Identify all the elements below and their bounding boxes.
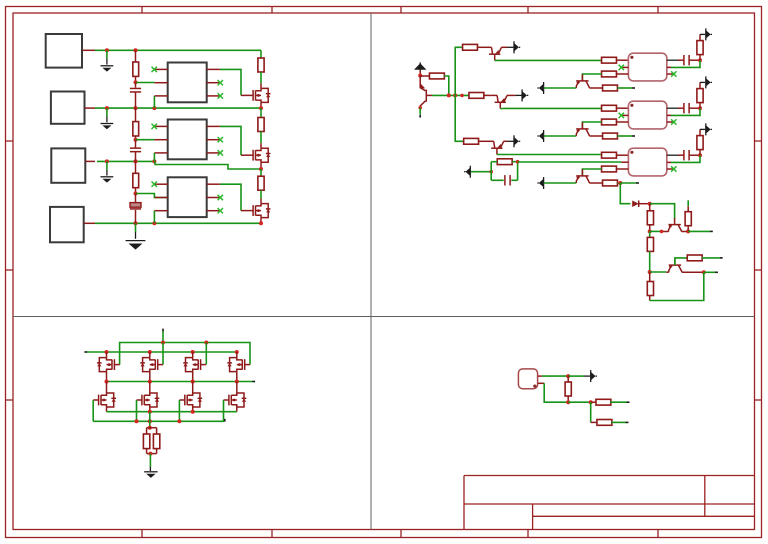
U2 pin5 stub + X <box>207 139 220 141</box>
wire net to drain resistor R1D <box>260 50 262 58</box>
wire drain drop M7 <box>192 382 194 394</box>
junction drain rail / M2 <box>148 350 152 354</box>
Q1 gate stub <box>241 94 253 96</box>
frame top tick 3 <box>400 7 402 14</box>
wire node across <box>568 401 591 403</box>
Y1 polarity dot <box>533 385 536 388</box>
U3 pin3 stub (left bottom) <box>154 210 167 212</box>
relay K1 coil resistor Ra1 <box>602 57 617 63</box>
wire R3-C3 node to U3 pin2 <box>136 194 168 198</box>
M8 gate stub <box>224 399 229 401</box>
junction net IN4 / U3 pin3 wire <box>152 221 156 225</box>
wire M6 source drop <box>149 407 151 412</box>
wire J2 output stub <box>85 107 96 109</box>
junction shunt top node <box>148 426 152 430</box>
input arrow P5 <box>543 177 545 189</box>
resistor Rc3 <box>603 180 618 186</box>
M4 gate stub <box>245 364 250 366</box>
U3 pin2 stub (left mid) <box>154 197 167 199</box>
junction mid rail / column 3 <box>191 380 195 384</box>
junction drain rail / M3 <box>191 350 195 354</box>
wire arrow to Q23 emitter <box>544 182 577 184</box>
junction net IN2 / GND2 <box>105 106 109 110</box>
wire net IN1 <box>95 49 261 51</box>
wire Y1 pin1 to supply node <box>542 375 568 377</box>
wire M7 source drop <box>192 407 194 412</box>
wire Rc1 stub <box>617 87 632 89</box>
resistor R40 shunt A <box>146 428 148 434</box>
resistor R41 shunt B <box>156 428 158 434</box>
capacitor Cs1 snubber <box>683 55 685 65</box>
frame bottom tick 2 <box>271 530 273 538</box>
wire M8 source drop <box>236 407 238 412</box>
frame right tick 1 <box>755 140 762 142</box>
wire drain drop M5 <box>106 382 108 394</box>
wire drain drop M1 <box>106 352 108 358</box>
M7 gate stub <box>179 399 184 401</box>
RC parallel block: resistor R14 <box>490 162 492 181</box>
U1 pin3 stub (left bottom) <box>154 95 167 97</box>
Q1 source wire <box>260 102 262 108</box>
junction supply node <box>566 374 570 378</box>
ground GND2 <box>101 123 114 125</box>
junction net IN3 / U2 pin3 wire <box>152 159 156 163</box>
Q2 source wire <box>260 162 262 169</box>
relay K1 drive resistor Rb1 <box>602 71 617 77</box>
junction Q3 source node <box>259 221 263 225</box>
wire RC node to relay K3 pin2 <box>518 161 622 163</box>
supply arrow row 1 <box>700 33 705 35</box>
diode D1 <box>632 201 639 208</box>
U1 pin1 no-connect X <box>152 67 157 72</box>
wire gate rail top row <box>120 343 250 365</box>
resistor R33 <box>687 255 702 261</box>
junction net IN1 / ladder <box>134 48 138 52</box>
wire M2 gate drop <box>162 343 164 365</box>
resistor R11 (NPN1 base) <box>463 44 478 50</box>
capacitor C3 polarized <box>130 203 141 208</box>
wire R34 loop to Q31 collector <box>650 272 704 300</box>
ground GND1 <box>101 65 114 67</box>
frame top tick 1 <box>141 7 143 14</box>
junction snubber node 2 <box>698 106 702 110</box>
wire Q30 collector to node <box>682 231 689 233</box>
frame top tick 2 <box>271 7 273 14</box>
relay K3 contact wire (black) <box>667 154 678 156</box>
junction emitter stub <box>660 230 664 234</box>
Y1 pin2 stub <box>538 382 544 384</box>
resistor R50 <box>567 376 569 382</box>
wire Rb1 to Q21 base <box>582 74 601 81</box>
wire Rb2 to Q22 base <box>582 122 601 129</box>
junction base net / R10 branch <box>447 93 451 97</box>
wire R10 to base net <box>444 76 449 95</box>
junction net IN4 / ladder-ground <box>134 221 138 225</box>
U2 pin4 stub + X <box>207 152 220 154</box>
relay K2 pin2 stub + X <box>622 114 629 116</box>
U1 pin5 stub + X <box>207 82 220 84</box>
wire Rc3 stub <box>620 182 636 184</box>
resistor R52 <box>591 421 598 423</box>
relay K2 drive resistor Rb2 <box>602 119 617 125</box>
mosfet M6 (bottom row) <box>141 395 143 406</box>
wire Q31 collector to node <box>682 271 704 273</box>
wire node down to R32 <box>649 231 651 237</box>
wire Rs1 to supply arrow <box>699 34 701 40</box>
U3 pin6 wire to MOSFET gate <box>220 184 241 210</box>
mosfet Q1 <box>252 90 254 101</box>
wire J3 output stub <box>85 160 95 162</box>
relay K1 contact wire (black) <box>667 59 678 61</box>
wire Y1 pin2 down <box>544 383 568 402</box>
wire R1D to Q1 drain <box>260 72 262 83</box>
mosfet M1 (top row) <box>113 359 115 370</box>
wire end tick R52 <box>626 422 629 424</box>
wire Q10 collector stub <box>419 108 421 115</box>
wire net IN2 <box>95 107 261 109</box>
junction gate rail / M2 gate <box>161 341 165 345</box>
junction base net / R11 stub <box>460 94 464 98</box>
wire node to supply arrow <box>568 375 584 377</box>
frame bottom tick 3 <box>400 530 402 538</box>
wire D1 node to Q30 base <box>650 204 675 219</box>
junction net IN2 / ladder <box>134 106 138 110</box>
mosfet M3 (top row) <box>200 359 202 370</box>
ground GND2 stem <box>106 108 108 116</box>
wire Rb3 to Q23 base <box>582 169 601 176</box>
U1 pin4 stub + X <box>207 95 220 97</box>
relay K3 pin2 stub <box>621 161 628 163</box>
wire J4 output stub <box>84 222 95 224</box>
U1 pin3 wire down to input net <box>153 96 155 108</box>
relay K3 drive resistor Rb3 <box>602 166 617 172</box>
frame top tick 5 <box>657 7 659 14</box>
wire node to C2 <box>135 140 137 149</box>
resistor R31 <box>687 206 689 211</box>
wire Rc2 stub <box>617 135 632 137</box>
wire end tick R33 <box>720 257 723 259</box>
wire Q31 collector out <box>704 271 716 273</box>
junction mid rail / column 4 <box>235 380 239 384</box>
junction RC left node <box>489 170 493 174</box>
wire R33 out <box>702 257 721 259</box>
wire M8 gate drop <box>223 400 225 421</box>
transistor Q22 (PNP driver) <box>576 128 588 130</box>
wire end tick R51 <box>627 401 630 403</box>
wire Q21 collector to Rc1 <box>589 87 602 89</box>
junction net IN3 / ladder <box>134 159 138 163</box>
U2 pin6 wire to MOSFET gate <box>220 126 241 155</box>
wire drain drop M8 <box>236 382 238 394</box>
junction net IN1 / GND1 <box>105 48 109 52</box>
U2 pin1 stub (left top, unconnected) <box>154 125 167 127</box>
resistor Rc1 <box>603 85 618 91</box>
wire Rs2 to supply arrow <box>699 82 701 88</box>
transistor Q21 (PNP driver) <box>576 80 588 82</box>
junction D1 cathode node <box>648 202 652 206</box>
wire base net B1 <box>432 94 469 96</box>
wire M6 gate drop <box>136 400 138 421</box>
supply arrow row 3 <box>700 128 705 130</box>
supply arrow P10 <box>590 370 592 382</box>
wire Rs3 to supply arrow <box>699 129 701 135</box>
resistor R13 (NPN3 base) <box>464 138 479 144</box>
Y1 pin1 stub <box>538 375 542 377</box>
capacitor C2 <box>130 147 141 149</box>
wire node to C3 <box>135 194 137 203</box>
wire M2 source to mid rail <box>149 372 151 382</box>
wire +V to node A <box>419 71 421 76</box>
frame bottom tick 1 <box>141 530 143 538</box>
mosfet M5 (bottom row) <box>98 395 100 406</box>
optocoupler U1 body <box>168 63 207 103</box>
frame bottom tick 4 <box>527 530 529 538</box>
wire end tick row 3 <box>636 182 639 184</box>
wire shunt join bottom <box>147 453 157 455</box>
M3 gate stub <box>201 364 206 366</box>
M6 gate stub <box>137 399 142 401</box>
wire R1-C1 node to U1 pin2 <box>136 82 155 84</box>
junction Q30 emitter node <box>648 229 652 233</box>
M2 gate stub <box>158 364 163 366</box>
wire source rail down to shunt <box>149 412 151 428</box>
relay K3 body <box>628 148 666 176</box>
wire net to drain resistor R3D <box>260 169 262 176</box>
ground GND4 stem <box>135 223 137 232</box>
wire net to drain resistor R2D <box>260 108 262 117</box>
resistor Rs1 supply <box>699 55 701 61</box>
junction Q1 source node <box>259 106 263 110</box>
resistor Rs3 supply <box>699 150 701 156</box>
junction gate rail / M3 gate <box>204 341 208 345</box>
ground GND5 <box>144 471 157 473</box>
U2 pin3 wire down to input net <box>153 153 155 162</box>
wire end tick <box>419 115 421 118</box>
resistor R1D drain <box>258 58 264 72</box>
frame top tick 4 <box>527 7 529 14</box>
wire R2D to Q2 drain <box>260 132 262 144</box>
wire node down to R52 <box>590 402 592 422</box>
supply arrow +V P1 <box>414 63 426 70</box>
transistor Q13 NPN <box>484 140 494 142</box>
wire M7 gate drop <box>178 400 180 421</box>
relay K2 coil resistor Ra2 <box>602 105 617 111</box>
junction mid rail / column 1 <box>105 380 109 384</box>
wire end tick Q30 <box>710 231 713 233</box>
input arrow P3 <box>543 82 545 94</box>
U3 pin4 stub + X <box>207 210 220 212</box>
junction node A <box>418 74 422 78</box>
wire Q22 collector to Rc2 <box>589 135 602 137</box>
wire R2-C2 node to U2 pin2 <box>136 139 155 141</box>
resistor R2 ladder <box>135 108 137 122</box>
U3 pin1 no-connect X <box>152 182 157 187</box>
drain rail end tick <box>84 351 87 353</box>
connector J1 <box>46 34 82 68</box>
mosfet M4 (top row) <box>244 359 246 370</box>
connector J4 <box>50 207 84 242</box>
mid rail end tick <box>252 381 255 383</box>
relay K3 coil resistor Ra3 <box>602 152 617 158</box>
U3 pin3 wire down to input net <box>153 211 155 224</box>
junction Q30 collector / R31 node <box>686 229 690 233</box>
junction Q10 collector node <box>418 106 422 110</box>
wire Q12 emitter to relay row B <box>500 108 503 110</box>
sheet divider horizontal <box>13 316 755 318</box>
capacitor Cs3 snubber <box>683 150 685 160</box>
junction R3/C3 node <box>134 192 138 196</box>
transistor Q10 PNP <box>425 90 427 102</box>
wire Rc3 node down to diode <box>620 183 630 204</box>
ground GND3 stem <box>106 161 108 169</box>
mosfet M2 (top row) <box>157 359 159 370</box>
wire arrow to Q21 emitter <box>544 87 577 89</box>
U3 pin5 stub + X <box>207 197 220 199</box>
junction base net / vertical bus <box>453 93 457 97</box>
input arrow P2 (row C aux) <box>469 166 471 178</box>
U1 pin6 stub (right top) <box>207 68 220 70</box>
junction R51 node <box>589 400 593 404</box>
wire P2 to RC node <box>471 171 491 173</box>
ground GND4 main <box>126 240 146 242</box>
wire drain drop M2 <box>149 352 151 358</box>
U2 pin1 no-connect X <box>152 124 157 129</box>
optocoupler U3 body <box>168 177 207 217</box>
wire Cs1 to supply resistor <box>689 59 700 61</box>
junction drain rail / M1 <box>105 350 109 354</box>
wire mid rail <box>107 381 253 383</box>
mosfet Q2 <box>252 150 254 161</box>
junction R1/C1 node <box>134 80 138 84</box>
wire Cs2 to supply resistor <box>689 107 700 109</box>
relay K1 pin4 stub + X <box>667 73 674 75</box>
vertical bus wire <box>455 47 464 141</box>
title block outline <box>464 476 755 530</box>
junction R2/C2 node <box>134 138 138 142</box>
junction Q31 base node <box>648 270 652 274</box>
wire drain drop M4 <box>236 352 238 358</box>
relay K1 body <box>628 53 666 81</box>
ground GND5 stem <box>149 454 151 467</box>
wire drain rail top row <box>87 351 237 353</box>
wire M1 source to mid rail <box>106 372 108 382</box>
wire M5 source drop <box>106 407 108 412</box>
wire end tick row 2 <box>632 135 635 137</box>
relay K3 pin4 stub + X <box>667 168 674 170</box>
transistor Q31 <box>669 264 681 266</box>
capacitor C1 <box>130 87 141 89</box>
wire node to Q30 emitter <box>650 230 662 232</box>
resistor R3D drain <box>258 176 264 190</box>
wire shunt split top <box>147 427 157 429</box>
wire source rail <box>107 411 237 413</box>
frame bottom tick 5 <box>657 530 659 538</box>
U2 pin6 stub (right top) <box>207 125 220 127</box>
wire R3D to Q3 drain <box>260 190 262 198</box>
U2 pin2 stub (left mid) <box>154 139 167 141</box>
wire arrow to Q22 emitter <box>544 135 577 137</box>
relay K3 pin5 return wire <box>667 161 671 163</box>
sheet divider vertical <box>370 13 372 530</box>
relay K2 body <box>628 101 666 129</box>
RC parallel block: capacitor C10 <box>491 179 504 181</box>
net stub top (gate rail feed) <box>162 331 164 342</box>
ground GND3 <box>101 176 114 178</box>
wire J1 output stub <box>82 49 95 51</box>
junction shunt bottom node <box>148 452 152 456</box>
wire net IN3 <box>97 160 155 162</box>
relay K1 polarity dot <box>630 56 633 59</box>
frame left tick 2 <box>6 269 14 271</box>
junction net IN2 / U1 pin3 wire <box>152 106 156 110</box>
wire M5 gate drop <box>92 400 94 421</box>
wire Q11 emitter to relay row A <box>495 59 602 61</box>
wire Cs3 to supply resistor <box>689 154 700 156</box>
mosfet M8 (bottom row) <box>228 395 230 406</box>
capacitor Cs2 snubber <box>683 103 685 113</box>
transistor Q12 NPN <box>491 94 497 96</box>
transistor Q23 (PNP driver) <box>576 175 588 177</box>
resistor R2D drain <box>258 118 264 132</box>
wire M4 source to mid rail <box>236 372 238 382</box>
wire R52 out <box>611 421 626 423</box>
wire drain drop M6 <box>149 382 151 394</box>
junction source rail / M7 <box>191 410 195 414</box>
connector J3 <box>51 148 85 182</box>
junction source rail / M6 <box>148 410 152 414</box>
relay K2 pin4 stub + X <box>667 121 674 123</box>
junction gate rail / shunt column <box>148 419 152 423</box>
wire net IN4 <box>95 222 261 224</box>
wire Q30 collector out <box>688 230 710 232</box>
supply arrow row 2 <box>700 81 705 83</box>
Q3 gate stub <box>241 210 253 212</box>
optocoupler U2 body <box>168 120 207 160</box>
junction gate rail / M6 gate <box>135 419 139 423</box>
U3 pin6 stub (right top) <box>207 183 220 185</box>
relay K2 contact wire (black) <box>667 107 678 109</box>
resistor R30 <box>649 204 651 211</box>
transistor Q30 <box>668 224 680 226</box>
M5 gate stub <box>93 399 98 401</box>
wire M3 gate drop <box>205 343 207 365</box>
U3 pin1 stub (left top, unconnected) <box>154 183 167 185</box>
junction drain rail / M4 <box>235 350 239 354</box>
relay K3 polarity dot <box>630 151 633 154</box>
input arrow P4 <box>543 130 545 142</box>
wire node to Q31 emitter <box>650 271 667 273</box>
Q2 gate stub <box>241 154 253 156</box>
wire end tick Q31 <box>715 272 718 274</box>
frame left tick 3 <box>6 399 14 401</box>
junction snubber node 1 <box>698 58 702 62</box>
relay K1 pin2 stub + X <box>622 66 629 68</box>
oscillator Y1 body <box>518 369 537 389</box>
resistor R34 <box>649 272 651 282</box>
resistor Rc2 <box>603 133 618 139</box>
wire Q23 collector to Rc3 <box>589 182 602 184</box>
wire gate rail bottom row <box>93 420 224 422</box>
Q3 source wire <box>260 218 262 224</box>
mosfet M7 (bottom row) <box>184 395 186 406</box>
junction snubber node 3 <box>698 153 702 157</box>
wire M3 source to mid rail <box>192 372 194 382</box>
resistor Rs2 supply <box>699 103 701 109</box>
U1 pin6 wire to MOSFET gate <box>220 69 241 95</box>
frame left tick 1 <box>6 140 14 142</box>
junction RC right node <box>516 160 520 164</box>
relay K1 pin5 return wire <box>667 66 671 68</box>
